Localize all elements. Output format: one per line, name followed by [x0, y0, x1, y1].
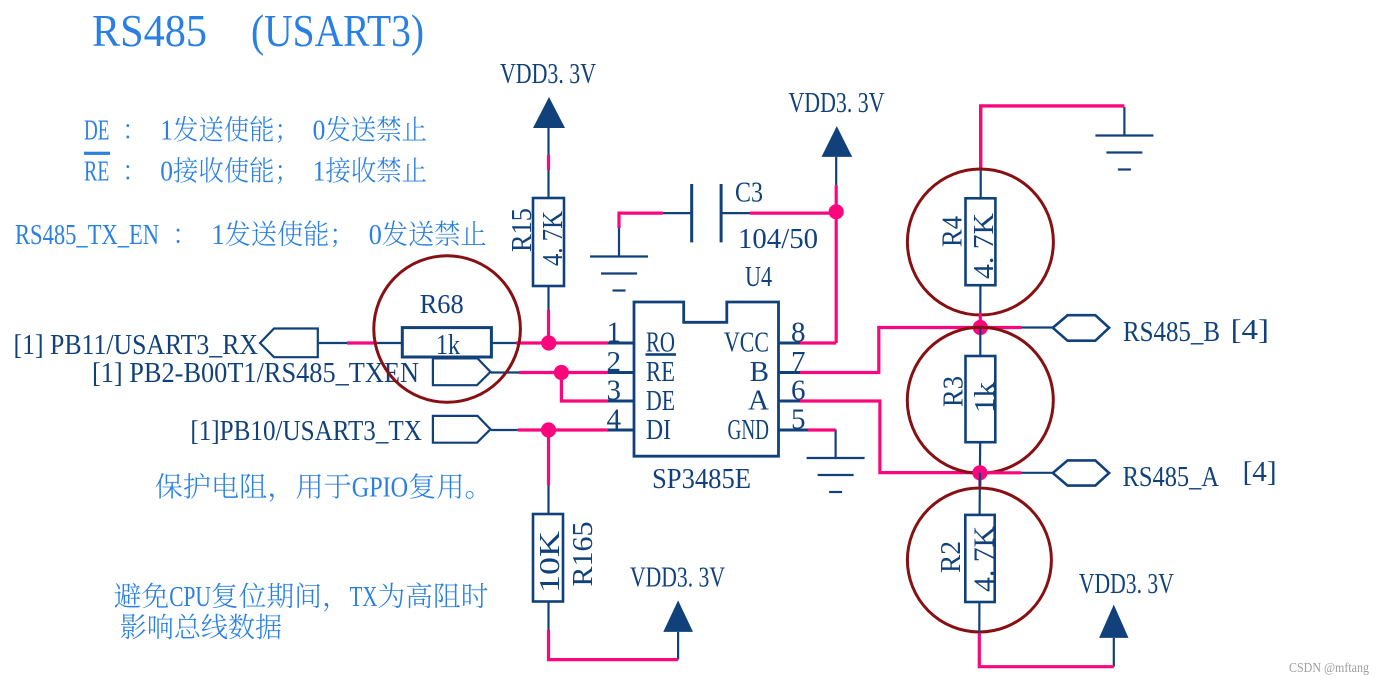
- wire pink to VCC junction: [835, 185, 838, 211]
- wire node A to port: [980, 471, 1022, 474]
- svg-text:R15: R15: [506, 208, 538, 252]
- resistor R15: [533, 198, 564, 286]
- connector port (RS485_TXEN): [433, 358, 491, 385]
- svg-text:(USART3): (USART3): [251, 6, 424, 56]
- wire pink stub below node A: [978, 473, 981, 486]
- ground (C3 left): [590, 228, 648, 291]
- pin 1 stub: [608, 342, 634, 345]
- port RS485_B hexagon: [1053, 315, 1109, 341]
- svg-text:C3: C3: [735, 177, 763, 209]
- pin 4 stub: [608, 429, 634, 432]
- connector port (PB10/USART3_TX): [433, 416, 491, 443]
- svg-text:RS485: RS485: [92, 6, 207, 56]
- resistor R4: [966, 198, 996, 285]
- svg-text:4. 7K: 4. 7K: [537, 211, 569, 266]
- svg-text:RE: RE: [84, 155, 109, 186]
- port RS485_A hexagon: [1053, 460, 1109, 485]
- resistor R3: [966, 356, 996, 442]
- wire TXEN to pin2: [519, 371, 608, 374]
- svg-text:GND: GND: [728, 414, 770, 446]
- svg-text:10K: 10K: [534, 531, 566, 593]
- svg-text:1k: 1k: [969, 381, 1001, 413]
- highlight circle around R4: [907, 169, 1053, 315]
- pin 2 stub: [608, 371, 634, 374]
- wire pink segment above R15: [547, 155, 550, 170]
- pin 7 stub: [779, 371, 801, 374]
- wire VDD arrow stem bottom middle: [677, 632, 679, 660]
- svg-text:[4]: [4]: [1243, 456, 1277, 488]
- capacitor C3: [692, 184, 721, 242]
- svg-text:R165: R165: [567, 522, 599, 587]
- svg-text:CSDN @mftang: CSDN @mftang: [1289, 661, 1369, 676]
- wire VCC junction down to pin8: [835, 212, 838, 343]
- svg-text:VDD3. 3V: VDD3. 3V: [500, 58, 596, 90]
- wire R165 bottom stub: [547, 602, 549, 631]
- wire node A to R2: [978, 473, 981, 515]
- wire C3 to ground: [619, 213, 663, 228]
- annotation RE: [84, 155, 426, 186]
- annotation CPU reset note line2: [121, 613, 281, 639]
- svg-text:VDD3. 3V: VDD3. 3V: [789, 87, 885, 119]
- svg-text:DE: DE: [84, 114, 109, 145]
- resistor R68: [402, 328, 491, 357]
- annotation protection resistor note: [155, 473, 473, 504]
- svg-text:VCC: VCC: [724, 327, 769, 359]
- wire R4 top to ground top right: [981, 106, 1125, 170]
- wire C3 to VCC junction: [750, 212, 836, 215]
- wire R68 right pin: [491, 342, 516, 344]
- svg-text:U4: U4: [745, 261, 772, 293]
- svg-text:RS485_B: RS485_B: [1123, 316, 1220, 348]
- wire TX node down: [547, 430, 550, 486]
- junction dot (VCC node): [829, 204, 844, 219]
- wire R3 to node A: [979, 442, 981, 472]
- power VDD3.3V arrow (above R15): [533, 97, 565, 128]
- svg-text:R2: R2: [935, 541, 967, 573]
- svg-text:RS485_TX_EN: RS485_TX_EN: [15, 219, 159, 250]
- svg-text:0: 0: [160, 155, 173, 186]
- svg-text:CPU: CPU: [169, 582, 211, 613]
- svg-text:SP3485E: SP3485E: [652, 463, 751, 495]
- annotation RS485_TX_EN: [15, 219, 485, 250]
- highlight circle around R68: [374, 256, 521, 403]
- svg-text:R4: R4: [937, 216, 969, 247]
- wire R2 bottom stub: [978, 602, 980, 633]
- pin 8 stub: [779, 342, 801, 345]
- wire R68 to pin1: [516, 341, 608, 344]
- annotation CPU reset note line1: [115, 582, 488, 613]
- wire R2 to VDD bottom right: [979, 633, 1114, 667]
- junction dot (TXEN node): [554, 365, 569, 380]
- svg-text:104/50: 104/50: [738, 223, 818, 255]
- svg-text:DE: DE: [646, 385, 675, 417]
- wire to port B: [1022, 326, 1053, 328]
- svg-text:A: A: [748, 385, 769, 417]
- junction dot (node A): [972, 465, 987, 480]
- pin 5 stub: [779, 429, 809, 432]
- svg-text:R68: R68: [420, 289, 464, 319]
- svg-text:1k: 1k: [436, 329, 460, 361]
- svg-text:VDD3. 3V: VDD3. 3V: [1079, 568, 1174, 600]
- junction dot (TX node): [541, 422, 556, 437]
- svg-text:TX: TX: [350, 582, 378, 613]
- svg-text:1: 1: [160, 114, 173, 145]
- svg-text:RS485_A: RS485_A: [1123, 461, 1219, 493]
- power VDD3.3V arrow (bottom right): [1099, 605, 1128, 638]
- wire pink RX segment: [347, 341, 377, 344]
- connector port (PB11/USART3_RX): [260, 329, 318, 358]
- ground (pin5 GND): [807, 430, 865, 493]
- wire port to R68: [319, 342, 348, 344]
- wire to R4 top: [980, 170, 982, 198]
- resistor R2: [965, 515, 994, 602]
- svg-text:B: B: [750, 356, 769, 388]
- annotation DE: [84, 114, 426, 145]
- svg-text:VDD3. 3V: VDD3. 3V: [630, 562, 725, 594]
- wire pin6 A to node A: [800, 401, 980, 473]
- wire TXEN port stub: [491, 371, 519, 373]
- svg-text:[4]: [4]: [1231, 314, 1269, 346]
- wire node B to R3: [979, 328, 981, 357]
- svg-text:RE: RE: [646, 356, 675, 388]
- wire TX to pin4: [518, 428, 608, 431]
- wire C3 right lead: [721, 212, 750, 214]
- ground (top right): [1095, 107, 1153, 170]
- resistor R165: [533, 514, 563, 602]
- overline under RO (active low): [646, 353, 677, 356]
- pin 6 stub: [779, 400, 801, 403]
- wire pin8 to VCC net: [800, 341, 836, 344]
- wire R4 to node B: [979, 285, 981, 327]
- highlight circle around R2: [907, 488, 1051, 632]
- svg-text:1: 1: [313, 155, 326, 186]
- power VDD3.3V arrow (above C3 net): [822, 126, 853, 157]
- svg-text:0: 0: [369, 219, 382, 250]
- wire R15 bottom stub: [547, 286, 549, 310]
- wire R15 to node RX: [547, 310, 550, 343]
- wire pin5 to ground: [808, 428, 836, 431]
- svg-text:4. 7K: 4. 7K: [968, 213, 1000, 279]
- svg-text:[1] PB2-B00T1/RS485_TXEN: [1] PB2-B00T1/RS485_TXEN: [92, 357, 419, 389]
- wire to R165 top: [547, 486, 549, 514]
- wire pin5 gnd stem: [834, 428, 836, 431]
- svg-text:R3: R3: [938, 376, 970, 407]
- wire C3 left lead: [663, 212, 692, 214]
- pin 3 stub: [608, 400, 634, 403]
- svg-text:DI: DI: [646, 414, 671, 446]
- wire TXEN node to pin3: [561, 373, 608, 402]
- svg-text:[1]PB10/USART3_TX: [1]PB10/USART3_TX: [190, 415, 422, 447]
- wire R165 to VDD bottom: [549, 630, 679, 660]
- wire VDD arrow to R15: [547, 128, 549, 155]
- wire pin7 B to node B: [800, 328, 980, 373]
- svg-text:GPIO: GPIO: [352, 473, 408, 504]
- wire pink stub above node B: [979, 313, 982, 328]
- wire R68 left pin: [377, 342, 402, 344]
- wire node B to port: [980, 326, 1021, 329]
- wire VDD arrow stem bottom right: [1113, 638, 1115, 667]
- junction dot (node B): [973, 320, 988, 335]
- svg-text:0: 0: [313, 114, 326, 145]
- svg-text:4. 7K: 4. 7K: [969, 526, 1001, 592]
- junction dot (RX node): [541, 335, 556, 350]
- svg-text:1: 1: [211, 219, 224, 250]
- wire VDD arrow stem: [835, 157, 837, 186]
- IC U4 SP3485E body: [634, 302, 779, 456]
- wire to R15 top: [547, 170, 549, 198]
- wire TX port stub: [491, 429, 518, 431]
- wire to port A: [1022, 472, 1053, 474]
- power VDD3.3V arrow (bottom middle): [663, 600, 693, 632]
- highlight circle around R3: [907, 327, 1053, 473]
- overline over RE: [84, 152, 110, 155]
